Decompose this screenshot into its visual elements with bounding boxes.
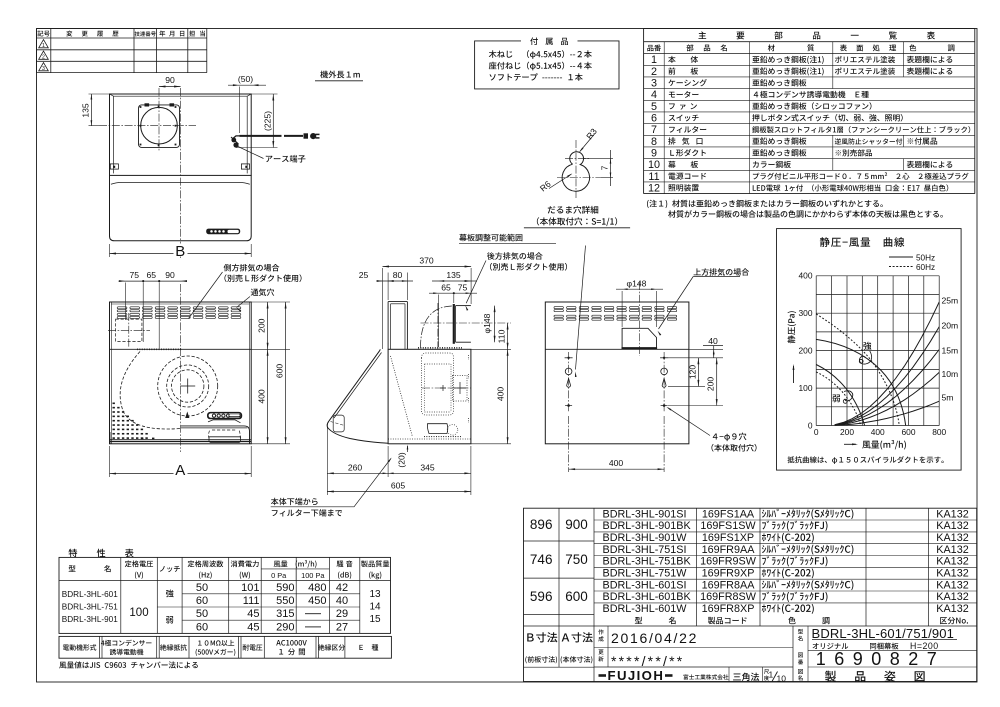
svg-text:KA132: KA132	[936, 579, 968, 591]
svg-text:42: 42	[336, 582, 348, 594]
svg-text:480: 480	[308, 582, 326, 594]
svg-text:8: 8	[651, 136, 657, 148]
fan scroll casing dashed outline	[120, 352, 180, 430]
svg-text:45: 45	[247, 608, 259, 620]
label 4-phi9 holes	[666, 406, 757, 451]
svg-text:φ148: φ148	[627, 278, 647, 288]
svg-text:BDRL-3HL-751W: BDRL-3HL-751W	[603, 568, 688, 580]
svg-text:29: 29	[336, 608, 348, 620]
dimension 200 / 400 (front heights)	[251, 302, 290, 444]
svg-text:BDRL-3HL-751: BDRL-3HL-751	[62, 603, 118, 612]
rear duct flange	[454, 304, 471, 344]
svg-text:KA132: KA132	[936, 568, 968, 580]
characteristics model names	[62, 590, 118, 624]
svg-text:169FR8AA: 169FR8AA	[702, 579, 756, 591]
chart axis labels	[799, 271, 947, 437]
fan curve strong 50Hz	[816, 339, 905, 425]
dimension 40 rear	[689, 336, 723, 358]
dimension (20) filter offset	[396, 445, 408, 468]
parts row 7 フィルター	[651, 124, 970, 136]
power cord	[233, 136, 303, 139]
static pressure flow chart box	[777, 229, 962, 471]
svg-text:60Hz: 60Hz	[916, 263, 935, 272]
side exhaust knockout (dashed)	[108, 313, 150, 347]
duct hole plate on top view	[139, 103, 180, 147]
svg-text:1: 1	[42, 43, 45, 49]
svg-text:A: A	[175, 462, 185, 479]
fan curve weak 50Hz	[816, 364, 864, 425]
svg-text:6: 6	[651, 113, 657, 125]
label body-to-filter note	[271, 457, 393, 516]
svg-text:400: 400	[609, 458, 624, 468]
chimney (duct cover)	[388, 302, 407, 350]
svg-text:B: B	[175, 243, 185, 260]
svg-text:25m: 25m	[942, 296, 959, 306]
parts row 10 幕板	[648, 159, 952, 171]
label strong on chart	[859, 342, 871, 364]
front bottom edge bands	[110, 432, 252, 444]
svg-text:135: 135	[446, 270, 461, 280]
svg-text:50: 50	[196, 582, 208, 594]
svg-text:260: 260	[348, 462, 363, 472]
svg-text:10: 10	[648, 159, 660, 171]
svg-text:****/**/**: ****/**/**	[611, 653, 684, 669]
mounting holes upper crosses	[565, 357, 669, 359]
svg-text:111: 111	[243, 595, 260, 607]
dimensions 65 75	[429, 268, 477, 347]
title block date rows	[594, 626, 793, 682]
characteristics product weights	[369, 589, 381, 625]
cord length note 1m	[315, 71, 363, 81]
rear duct elbow center line arc	[421, 303, 512, 351]
model group 751	[603, 544, 969, 580]
accessory list box (fuzokuhin)	[475, 37, 619, 88]
dimension A (body width)	[110, 446, 252, 479]
svg-text:90: 90	[165, 75, 175, 85]
label vent hole	[236, 288, 274, 311]
svg-text:KA132: KA132	[936, 544, 968, 556]
svg-text:50Hz: 50Hz	[916, 253, 935, 262]
svg-text:60: 60	[196, 621, 208, 633]
svg-text:746: 746	[530, 552, 553, 567]
svg-text:90: 90	[165, 270, 175, 280]
svg-text:169FR9AA: 169FR9AA	[702, 544, 756, 556]
svg-text:BDRL-3HL-601W: BDRL-3HL-601W	[603, 603, 688, 615]
chart note spiral duct	[787, 456, 943, 464]
svg-text:10m: 10m	[942, 369, 959, 379]
svg-text:110: 110	[496, 329, 506, 343]
svg-text:1: 1	[651, 54, 657, 66]
FUJIOH logo row	[599, 667, 787, 684]
keyhole slots (daruma)	[565, 368, 667, 387]
svg-text:7: 7	[651, 124, 657, 136]
chart legend	[889, 253, 935, 272]
svg-text:KA132: KA132	[936, 603, 968, 615]
mounting holes lower dots	[565, 404, 668, 407]
svg-text:200: 200	[706, 377, 716, 392]
svg-text:(20): (20)	[396, 452, 406, 467]
svg-text:FUJIOH: FUJIOH	[608, 668, 665, 683]
svg-text:0 Pa: 0 Pa	[271, 571, 287, 580]
model group 901	[603, 508, 969, 544]
svg-text:1: 1	[769, 670, 774, 680]
svg-text:100: 100	[129, 607, 148, 619]
svg-text:169FS1XP: 169FS1XP	[702, 532, 754, 544]
daruma hole detail keyhole shape	[562, 152, 589, 192]
svg-text:290: 290	[276, 621, 294, 633]
duct resistance curves	[835, 296, 959, 426]
lamp housing front view	[181, 420, 250, 444]
label rear exhaust case	[465, 252, 568, 310]
dimension phi148 side	[482, 306, 496, 343]
rear view vent slots	[554, 307, 677, 321]
svg-text:100: 100	[799, 383, 813, 393]
svg-text:3: 3	[42, 66, 45, 72]
model table grid	[524, 508, 977, 681]
title block right section	[793, 626, 977, 682]
main parts list table	[644, 28, 975, 193]
front view center line	[180, 284, 182, 452]
mounting hole columns center lines	[569, 352, 665, 472]
svg-text:550: 550	[276, 595, 294, 607]
svg-text:KA132: KA132	[936, 556, 968, 568]
parts row 8 排気口	[651, 136, 937, 148]
characteristics table grid	[59, 557, 391, 633]
dimension (50) cord position	[228, 74, 266, 133]
svg-text:BDRL-3HL-901W: BDRL-3HL-901W	[603, 532, 688, 544]
svg-text:9: 9	[651, 148, 657, 160]
parts row 4 モーター	[651, 89, 869, 101]
svg-text:1690827: 1690827	[816, 649, 946, 669]
svg-text:50: 50	[196, 608, 208, 620]
dimension B (front width)	[110, 243, 252, 260]
parts row 5 ファン	[651, 101, 871, 113]
svg-text:100 Pa: 100 Pa	[301, 571, 325, 580]
svg-text:600: 600	[275, 364, 285, 379]
earth terminal symbol	[231, 137, 239, 148]
label side exhaust case	[189, 264, 302, 319]
svg-text:400: 400	[495, 387, 505, 402]
dimension 135 (duct hole from top edge)	[80, 94, 109, 126]
fan rotation arrow	[185, 412, 189, 419]
model table B A dimensions	[530, 517, 588, 604]
filter dot pattern lower left	[113, 403, 155, 440]
svg-text:3: 3	[651, 78, 657, 90]
dimension 400 side	[471, 349, 511, 444]
svg-text:0: 0	[808, 421, 813, 431]
revision mark triangle 2	[39, 51, 49, 61]
svg-text:2: 2	[651, 66, 657, 78]
svg-text:(225): (225)	[263, 111, 273, 131]
svg-text:BDRL-3HL-751SI: BDRL-3HL-751SI	[603, 544, 687, 556]
dimension (225) cord height	[236, 94, 278, 148]
characteristics data rows	[196, 582, 348, 634]
svg-text:BDRL-3HL-901SI: BDRL-3HL-901SI	[603, 508, 687, 520]
svg-text:25: 25	[359, 270, 369, 280]
svg-text:200: 200	[840, 427, 854, 437]
svg-text:400: 400	[799, 271, 813, 281]
knockout shadow dotted on divider	[137, 348, 182, 350]
earth terminal label	[238, 147, 305, 163]
revision table headers	[37, 30, 205, 36]
daruma center lines	[557, 140, 601, 198]
svg-text:11: 11	[648, 171, 659, 183]
filter bottom dotted line	[388, 438, 471, 440]
parts row 9 Ｌ形ダクト	[651, 148, 872, 160]
svg-text:120: 120	[687, 365, 697, 380]
switch unit front view	[207, 412, 242, 419]
svg-text:75: 75	[130, 270, 140, 280]
dimension phi148 rear	[616, 278, 663, 327]
rear duct opening	[622, 328, 658, 349]
svg-text:315: 315	[276, 608, 294, 620]
front view vent slots	[117, 307, 241, 319]
dimension 200 rear	[668, 358, 723, 406]
revision mark triangle 1	[39, 40, 49, 50]
title block left labels	[525, 632, 592, 663]
characteristics table headers	[69, 560, 390, 580]
svg-text:370: 370	[419, 255, 434, 265]
dimension 600 (front total height)	[275, 302, 287, 444]
dimension R3 leader	[579, 126, 599, 153]
svg-text:BDRL-3HL-751BK: BDRL-3HL-751BK	[603, 556, 692, 568]
svg-text:5: 5	[651, 101, 657, 113]
model table header row	[635, 617, 968, 625]
filter slope dotted line	[391, 356, 413, 437]
svg-text:80: 80	[393, 270, 403, 280]
svg-text:169FR8XP: 169FR8XP	[702, 603, 755, 615]
svg-text:750: 750	[565, 552, 588, 567]
motor spec row	[59, 636, 391, 658]
switch unit on front panel	[206, 229, 240, 235]
svg-text:(50): (50)	[238, 74, 253, 84]
model group 601	[603, 579, 969, 615]
svg-text:590: 590	[276, 582, 294, 594]
svg-text:600: 600	[565, 589, 588, 604]
label weak on chart	[832, 391, 852, 404]
svg-text:169FS1SW: 169FS1SW	[700, 520, 756, 532]
power plug	[304, 133, 320, 139]
svg-text:800: 800	[932, 427, 946, 437]
svg-text:596: 596	[530, 589, 553, 604]
parts row 6 スイッチ	[651, 113, 903, 125]
svg-text:200: 200	[257, 318, 267, 333]
y axis title static pressure	[787, 311, 796, 383]
svg-text:7: 7	[600, 165, 609, 170]
svg-text:BDRL-3HL-601SI: BDRL-3HL-601SI	[603, 579, 687, 591]
parts table column headers	[647, 44, 954, 51]
fan scroll dashed circles	[158, 356, 218, 416]
dimension 120 rear	[668, 358, 705, 387]
svg-text:40: 40	[708, 336, 718, 346]
side view internal parts dotted	[418, 348, 471, 437]
dimensions 75 65 90 (side duct position)	[118, 270, 187, 350]
svg-text:400: 400	[257, 389, 267, 404]
x axis title flow rate	[844, 440, 906, 450]
parts row 3 ケーシング	[651, 78, 806, 90]
fan curve weak 60Hz dotted	[816, 372, 861, 426]
characteristics table title	[69, 549, 134, 558]
dimension 7 (center spacing)	[583, 150, 613, 186]
side view canopy	[327, 349, 388, 443]
svg-text:KA132: KA132	[936, 520, 968, 532]
svg-text:45: 45	[247, 621, 259, 633]
svg-text:169FR8SW: 169FR8SW	[700, 591, 757, 603]
svg-text:φ148: φ148	[482, 313, 492, 333]
svg-text:101: 101	[241, 582, 259, 594]
rear duct center line	[638, 282, 640, 356]
svg-text:75: 75	[458, 283, 468, 293]
characteristics notch labels	[166, 590, 174, 624]
dimensions 260 345 605	[327, 424, 471, 495]
dimension 90 (duct offset)	[159, 75, 181, 87]
top view outer body	[110, 94, 252, 175]
JIS measurement note	[59, 661, 198, 668]
svg-text:400: 400	[871, 427, 885, 437]
revision history table	[37, 29, 207, 73]
top view front panel	[110, 175, 252, 240]
dimension 400 rear	[569, 458, 665, 470]
label makuita adjustable range	[459, 234, 586, 377]
svg-text:169FR9SW: 169FR9SW	[700, 556, 757, 568]
parts row 1 本体	[651, 54, 952, 66]
duct hole circle	[141, 107, 178, 144]
svg-text:450: 450	[308, 595, 326, 607]
svg-text:600: 600	[902, 427, 916, 437]
svg-text:BDRL-3HL-901BK: BDRL-3HL-901BK	[603, 520, 692, 532]
label top exhaust case	[657, 268, 749, 335]
side view body rectangle	[388, 349, 471, 444]
svg-text:BDRL-3HL-601: BDRL-3HL-601	[62, 590, 118, 599]
svg-text:169FS1AA: 169FS1AA	[702, 508, 755, 520]
svg-text:345: 345	[420, 462, 435, 472]
parts row 11 電源コード	[648, 171, 968, 183]
svg-text:12: 12	[648, 183, 660, 195]
svg-text:900: 900	[565, 517, 588, 532]
daruma detail caption	[524, 206, 630, 228]
dimension 110 side	[471, 323, 511, 349]
svg-text:0: 0	[814, 427, 819, 437]
top view center lines	[99, 88, 196, 258]
dimension 370 (top depth)	[383, 255, 472, 349]
svg-text:4: 4	[651, 89, 657, 101]
svg-text:5m: 5m	[942, 393, 954, 403]
parts row 2 前板	[651, 66, 952, 78]
svg-text:605: 605	[391, 481, 406, 491]
svg-text:KA132: KA132	[936, 532, 968, 544]
svg-text:60: 60	[196, 595, 208, 607]
svg-text:2: 2	[42, 55, 45, 61]
svg-text:65: 65	[441, 283, 451, 293]
svg-text:65: 65	[147, 270, 157, 280]
svg-text:13: 13	[369, 589, 381, 600]
svg-text:14: 14	[369, 602, 381, 613]
svg-text:169FR9XP: 169FR9XP	[702, 568, 755, 580]
fan curve strong 60Hz dotted	[816, 314, 899, 426]
svg-text:27: 27	[336, 621, 348, 633]
svg-text:KA132: KA132	[936, 508, 968, 520]
chart title	[820, 237, 904, 247]
svg-text:40: 40	[336, 595, 348, 607]
parts row 12 照明装置	[648, 183, 948, 195]
svg-text:BDRL-3HL-601BK: BDRL-3HL-601BK	[603, 591, 692, 603]
parts table note	[647, 200, 943, 218]
svg-text:135: 135	[80, 103, 90, 118]
svg-text:20m: 20m	[942, 321, 959, 331]
top view mounting brackets	[110, 164, 249, 169]
svg-text:896: 896	[530, 517, 553, 532]
svg-text:15m: 15m	[942, 346, 959, 356]
chart grid	[816, 276, 939, 426]
svg-text:BDRL-3HL-601/751/901: BDRL-3HL-601/751/901	[812, 626, 954, 641]
dimension R6 leader	[538, 173, 573, 194]
svg-text:2016/04/22: 2016/04/22	[611, 630, 698, 646]
dimensions 25 80 135	[359, 270, 477, 300]
front view outline	[110, 302, 252, 444]
svg-text:300: 300	[799, 308, 813, 318]
svg-text:10: 10	[777, 674, 787, 684]
svg-text:15: 15	[369, 614, 381, 625]
svg-text:KA132: KA132	[936, 591, 968, 603]
revision mark triangle 3	[39, 63, 49, 73]
canopy front rail dashed	[331, 415, 345, 432]
svg-text:200: 200	[799, 345, 813, 355]
parts table title	[698, 31, 935, 39]
rear view outline	[545, 302, 689, 444]
svg-text:BDRL-3HL-901: BDRL-3HL-901	[62, 615, 118, 624]
